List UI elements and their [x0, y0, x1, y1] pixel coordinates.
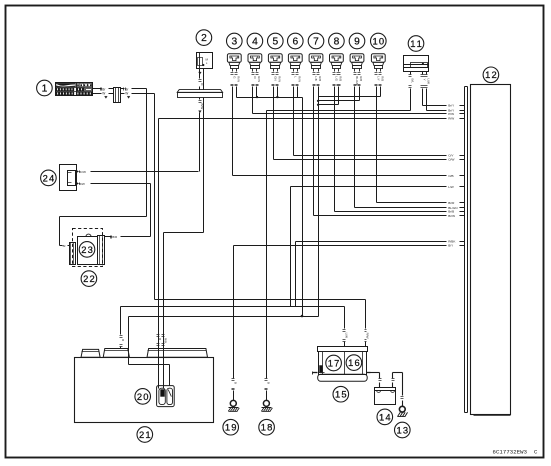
wire: long main feed corner x158 to ECU y118.4 — [158, 119, 160, 389]
battery terminal bump A — [81, 349, 100, 357]
label circle 8 — [329, 33, 345, 49]
svg-text:14: 14 — [379, 411, 391, 422]
wire: ECU input line y186.6 (L/W) — [291, 185, 465, 189]
connector 24 (diagnostic/sensor) — [60, 165, 77, 191]
label circle 9 — [349, 33, 365, 49]
svg-text:18: 18 — [261, 422, 273, 433]
connector block 1 (meter assembly) — [56, 83, 93, 96]
svg-text:B: B — [267, 382, 271, 384]
wire: immobilizer right pin to comp24 riser x151 — [105, 235, 151, 239]
svg-text:Y: Y — [423, 79, 427, 81]
svg-text:B/W: B/W — [79, 182, 85, 186]
svg-text:10: 10 — [373, 35, 385, 46]
label circle 1 — [37, 80, 53, 96]
svg-text:L/G: L/G — [334, 76, 338, 81]
svg-text:R/W: R/W — [278, 76, 282, 82]
wire: ground 18 drop x266.4 from sensor-11 line y110.1 — [265, 111, 271, 401]
svg-text:23: 23 — [81, 244, 93, 255]
label circle 16 — [346, 355, 362, 371]
fuel injector connector 7 — [309, 54, 323, 86]
wire: ECU input line y118.4 (R/W) — [159, 117, 465, 121]
svg-text:5: 5 — [272, 36, 278, 47]
wire: labels on battery pair x158/x163 — [157, 335, 168, 346]
svg-text:L/Y: L/Y — [376, 76, 380, 80]
battery terminal bump C — [147, 349, 208, 358]
svg-text:R/W: R/W — [298, 76, 302, 82]
svg-text:6C17732EW3 C: 6C17732EW3 C — [493, 448, 538, 455]
relay box 15 (starter relay assembly) — [318, 347, 368, 382]
svg-text:R/W: R/W — [237, 76, 241, 82]
label circle 5 — [268, 33, 284, 49]
svg-text:12: 12 — [485, 69, 497, 80]
svg-text:R/W: R/W — [366, 333, 370, 339]
svg-text:16: 16 — [348, 357, 360, 368]
relay box left pin — [313, 372, 318, 375]
svg-text:Br/Y: Br/Y — [448, 104, 454, 108]
svg-text:W: W — [102, 92, 105, 96]
ground 19 symbol — [230, 400, 236, 406]
main fuse holder 20 — [157, 386, 175, 407]
svg-text:17: 17 — [328, 357, 340, 368]
ignition coil connector 4 — [248, 54, 262, 86]
relay box right pin and wire to battery 14 positive — [367, 373, 382, 388]
label circle 24 — [41, 170, 57, 186]
wire: ECU input line y175.7 (O/B) — [233, 174, 465, 178]
wire: sensor 11 pin3 to ECU y110.1 — [425, 72, 447, 111]
wire: ECU input line y202.9 (Br/R) — [377, 201, 465, 205]
svg-text:6: 6 — [292, 36, 298, 47]
wire: coil 4 signal drop to ECU line y113.9 — [252, 87, 254, 114]
wire: coil 6 signal drop to ECU line y155.1 — [293, 87, 295, 156]
ignition coil connector 3 — [227, 54, 241, 86]
label circle 17 — [326, 355, 342, 371]
wire: comp24 lower pin toward x151 — [77, 182, 151, 186]
svg-text:L/B: L/B — [314, 76, 318, 80]
wire: vertical drop x155 from comp1 lower to relay feed H1 — [154, 94, 156, 300]
svg-text:7: 7 — [313, 36, 319, 47]
fuel injector connector 9 — [350, 54, 364, 86]
label circle 7 — [308, 33, 324, 49]
svg-text:B/R: B/R — [112, 235, 118, 239]
svg-text:R/W: R/W — [448, 117, 454, 121]
svg-text:R/B: R/B — [339, 76, 343, 81]
wire: coil 5 signal drop to ECU line y159.3 — [273, 87, 275, 160]
svg-text:Br/W: Br/W — [79, 170, 86, 174]
svg-text:B: B — [233, 382, 237, 384]
svg-text:R/B: R/B — [359, 76, 363, 81]
label circle 22 — [81, 271, 97, 287]
wire: x161.8 from bus-bar route down into fuse 20 — [163, 233, 165, 389]
label circle 20 — [135, 389, 151, 405]
wire: riser x290.8 from ECU line y186.6 down to H2 — [290, 187, 292, 307]
sensor 2 (atmospheric pressure sensor) — [197, 53, 213, 69]
label circle 15 — [333, 386, 349, 402]
svg-text:O/B: O/B — [448, 174, 453, 178]
ECU 12 (engine control unit) — [465, 85, 511, 416]
svg-text:B/Y: B/Y — [448, 244, 453, 248]
wire: comp24 upper pin to bus bar drop — [77, 170, 199, 174]
wire: ECU input line y211.3 (Br/B) — [335, 210, 465, 214]
wire: ECU input line y207.5 (BL/GN) — [355, 206, 465, 210]
wire: bus bar right drop down then left to battery feed — [164, 98, 204, 233]
svg-text:W: W — [125, 92, 128, 96]
battery box 21 — [75, 358, 214, 423]
svg-text:20: 20 — [137, 391, 149, 402]
battery 14 — [375, 388, 396, 405]
svg-text:Br/B: Br/B — [448, 210, 454, 214]
wire: coil supply bus y97.1 joining coils 3-6 — [237, 87, 303, 99]
label circle 14 — [377, 409, 393, 425]
wire: injector 10 signal drop to ECU line y202.9 — [376, 87, 378, 203]
wire H3 y316: +12V line from fuse 20 to injector/coil buses — [129, 315, 319, 386]
wire: joint connector to node at x147 (upper) — [121, 87, 147, 91]
ignition coil connector 5 — [268, 54, 282, 86]
wire: bus bar left drop to comp24 line — [199, 98, 205, 172]
svg-text:3: 3 — [231, 36, 237, 47]
svg-text:L/W: L/W — [344, 333, 348, 339]
label circle 3 — [227, 33, 243, 49]
svg-text:B/L: B/L — [411, 79, 415, 84]
fuel injector connector 10 — [371, 54, 385, 86]
svg-text:13: 13 — [397, 424, 409, 435]
svg-text:Br/W: Br/W — [448, 214, 455, 218]
wire: injector supply bus (7-10) stair at y96.5/100.9/104.8 — [317, 87, 381, 317]
wire: ECU input line y159.3 (O/W) — [274, 158, 465, 162]
joint connector (between 1 and harness) — [114, 88, 121, 103]
label circle 11 — [408, 36, 424, 52]
wire: sensor 11 pin1 down-left to ground 18 line — [267, 72, 415, 111]
wire: coil bus riser x302 down to +12V line H3 — [302, 98, 304, 317]
svg-text:BL/GN: BL/GN — [355, 76, 359, 85]
svg-text:22: 22 — [83, 273, 95, 284]
svg-text:R/W: R/W — [257, 76, 261, 82]
svg-text:R/B: R/B — [163, 338, 167, 343]
svg-text:L/W: L/W — [427, 79, 431, 85]
svg-text:O/W: O/W — [448, 158, 454, 162]
wire: component 1 pin B to joint connector — [93, 92, 114, 99]
svg-text:R/B: R/B — [381, 76, 385, 81]
svg-text:21: 21 — [139, 429, 151, 440]
wire: x147 drop turning left at y216.5 to immobilizer — [60, 217, 147, 248]
ignition coil connector 6 — [288, 54, 302, 86]
svg-text:4: 4 — [252, 36, 258, 47]
label circle 2 — [196, 30, 212, 46]
wire: joint connector to node at x155 (lower) — [121, 92, 155, 99]
wire: ground 19 drop x233.3 from ECU line y245.4 — [232, 246, 238, 401]
wire: ECU input line y245.4 (B/Y) — [234, 244, 465, 248]
svg-text:2: 2 — [201, 33, 207, 44]
svg-text:P/W: P/W — [448, 112, 454, 116]
svg-text:8: 8 — [334, 36, 340, 47]
wire: ECU input line y105.3 (Br/Y) — [448, 104, 464, 108]
label circle 19 — [223, 419, 239, 435]
wire: sensor 2 right pin down through bus bar — [203, 69, 205, 90]
bus bar plate (wire harness joint) — [177, 90, 222, 98]
immobilizer antenna 23 — [70, 234, 105, 264]
label circle 21 — [137, 427, 153, 443]
wire: injector 7 signal drop to ECU line y215.7 — [313, 87, 315, 216]
label circle 10 — [371, 33, 387, 49]
label circle 13 — [395, 422, 411, 438]
svg-text:Br/R: Br/R — [448, 201, 455, 205]
throttle position sensor 11 — [404, 56, 429, 72]
svg-text:15: 15 — [335, 389, 347, 400]
wire: battery 14 negative up-right to ground 13 — [392, 373, 404, 407]
wire: coil 3 signal drop to ECU line y175.7 — [232, 87, 234, 176]
wire: vertical drop x147 from comp1 upper to immobilizer line — [146, 89, 148, 217]
fuel injector connector 8 — [330, 54, 344, 86]
label circle 23 — [79, 242, 95, 258]
label circle 4 — [247, 33, 263, 49]
wire: ECU input line y241.4 (R/BK) — [296, 240, 465, 244]
wire: injector 8 signal drop to ECU line y211.3 — [334, 87, 336, 212]
wire: ECU input line y113.9 (P/W) — [253, 112, 465, 116]
wire: sensor 11 pin2 to ECU y105.3 — [421, 72, 447, 106]
battery terminal bump B — [103, 349, 129, 358]
wire: riser x295.3 from ECU line y241.4 down to H2 — [295, 242, 297, 307]
label circle 12 — [483, 67, 499, 83]
svg-text:Br: Br — [63, 244, 66, 248]
svg-text:9: 9 — [354, 36, 360, 47]
wire: ECU input line y110.1 (Br/Y) — [448, 108, 464, 112]
wire: ECU input line y215.7 (Br/W) — [314, 214, 465, 218]
wire: vertical x151 comp24 lower down to comp23 right — [150, 184, 152, 237]
svg-text:19: 19 — [225, 422, 237, 433]
svg-text:1: 1 — [42, 83, 48, 94]
immobilizer unit 22 (dashed outline) — [73, 229, 103, 267]
wire: sensor 2 left pin down through bus bar — [199, 69, 205, 90]
ground 18 symbol — [263, 400, 269, 406]
wire: ECU input line y155.1 (O/Y) — [294, 153, 465, 157]
svg-text:GN: GN — [273, 76, 277, 80]
label circle 18 — [259, 419, 275, 435]
svg-text:24: 24 — [43, 172, 55, 183]
svg-text:R/B: R/B — [318, 76, 322, 81]
wire: injector 9 signal drop to ECU line y207.5 — [354, 87, 356, 208]
wire: component 1 pin A to joint connector — [93, 87, 114, 91]
wire H1 y299.3: comp1-lower feed to relay box pin x365.5 — [155, 300, 370, 347]
svg-text:L/W: L/W — [448, 185, 454, 189]
svg-text:11: 11 — [410, 38, 422, 49]
wire H2 y307: battery bump feed to relay box pin x344.2 — [120, 307, 349, 349]
label circle 6 — [288, 33, 304, 49]
ground 13 symbol — [399, 406, 405, 412]
